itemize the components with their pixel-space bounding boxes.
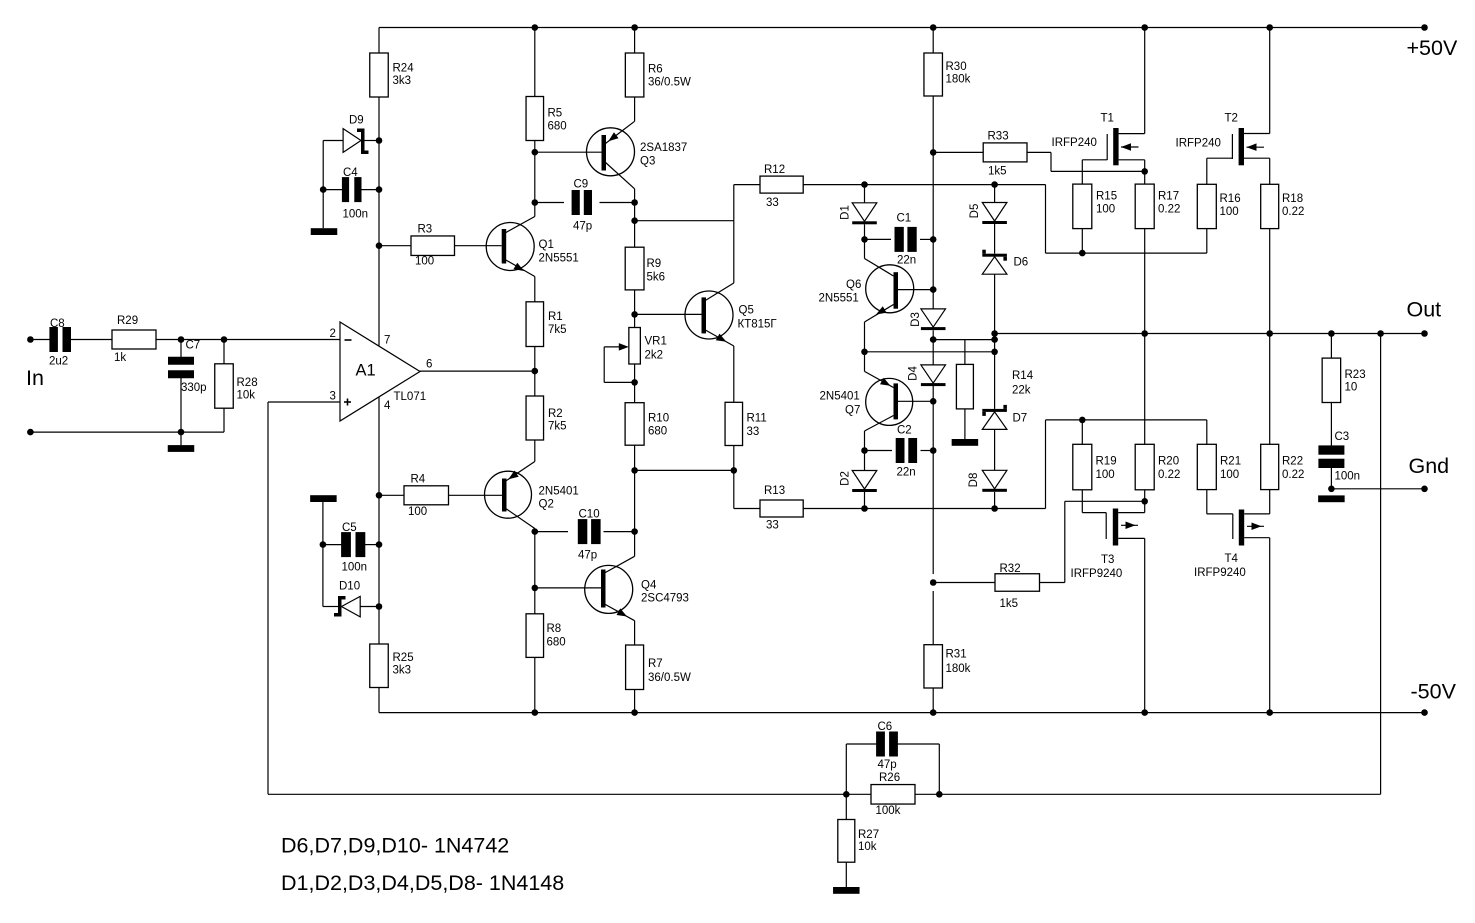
svg-text:0.22: 0.22 [1282, 469, 1304, 481]
node C6 left junction [843, 791, 850, 798]
svg-text:22k: 22k [1012, 385, 1031, 397]
transistor Q6 2N5551 [866, 265, 914, 313]
capacitor C1 [865, 238, 892, 240]
svg-text:47p: 47p [578, 550, 597, 562]
svg-text:D3: D3 [910, 312, 922, 327]
resistor R11 [725, 402, 743, 445]
svg-text:R32: R32 [1000, 563, 1021, 575]
wire down to C10 node [634, 470, 636, 556]
svg-text:100: 100 [1096, 204, 1115, 216]
svg-text:VR1: VR1 [645, 336, 667, 348]
svg-text:C5: C5 [342, 522, 357, 534]
wire R12 to D1/D5 node [803, 184, 994, 186]
node C1 left junction [861, 236, 868, 243]
wire feedback bottom run [268, 793, 871, 795]
wire T2 gate to R16 [1207, 157, 1233, 159]
svg-text:R7: R7 [648, 658, 663, 670]
resistor R5 [526, 97, 544, 141]
resistor R17 [1135, 184, 1154, 229]
wire zener column to D7 [994, 340, 996, 409]
wire Gnd rail [1331, 488, 1424, 490]
wire Q2 collector to Q4 base node [534, 532, 536, 614]
diode D3 [921, 309, 946, 327]
node C10 left junction [532, 528, 539, 535]
svg-text:R12: R12 [764, 164, 785, 176]
resistor R28 [223, 340, 225, 364]
transistor Q1 2N5551 [486, 223, 534, 271]
wire D1 to C1 node [864, 224, 866, 239]
svg-text:680: 680 [648, 426, 667, 438]
svg-text:Q1: Q1 [539, 239, 554, 251]
wire D8 node up link [1045, 420, 1047, 509]
wire Q3 base lead [535, 151, 602, 153]
svg-text:R9: R9 [647, 258, 662, 270]
svg-text:R10: R10 [648, 413, 669, 425]
svg-text:C10: C10 [579, 509, 600, 521]
svg-text:100: 100 [1096, 469, 1115, 481]
svg-text:D4: D4 [908, 366, 920, 381]
node input terminal lower [27, 429, 34, 436]
node Q4 base junction [532, 585, 539, 592]
wire Q6 base lead [898, 289, 933, 291]
svg-text:IRFP9240: IRFP9240 [1194, 567, 1246, 579]
diode D8 [982, 470, 1007, 489]
node R12 branch junction [631, 217, 638, 224]
transistor Q7 2N5401 [866, 378, 913, 425]
wire Q4 base lead [535, 587, 601, 589]
capacitor C4 [342, 177, 349, 202]
svg-text:IRFP9240: IRFP9240 [1071, 568, 1123, 580]
wire R29 to op-amp pin2 [156, 339, 340, 341]
wire R6 to Q3 emitter [634, 97, 636, 121]
mosfet T1 IRFP240 [1113, 128, 1118, 165]
node VR1 wiper junction [631, 379, 638, 386]
node R10-R11 link left [631, 467, 638, 474]
node R3 junction [376, 242, 383, 249]
wire emitters to zener column [865, 351, 995, 353]
node C7 top junction [178, 336, 185, 343]
node input terminal upper [27, 336, 34, 343]
svg-text:R19: R19 [1096, 456, 1117, 468]
resistor R10 [625, 403, 644, 446]
wire D7 to D8 [994, 429, 996, 470]
capacitor C8 [49, 327, 58, 352]
wire C1 node to Q6 base [932, 239, 934, 309]
wire R4 to Q2 base [449, 494, 503, 496]
svg-text:Q7: Q7 [845, 405, 860, 417]
svg-text:180k: 180k [946, 663, 971, 675]
node R19 top junction [1079, 417, 1086, 424]
resistor R20 [1144, 334, 1146, 445]
node C4 left junction [320, 186, 327, 193]
resistor R6 [625, 53, 644, 97]
wire C9 node to R9 [634, 203, 636, 248]
svg-text:C9: C9 [574, 179, 589, 191]
wire R32 to T3 source node [1040, 582, 1065, 584]
svg-text:180k: 180k [946, 74, 971, 86]
wire R10 to bottom node [634, 445, 636, 470]
node C1 right junction [930, 236, 937, 243]
svg-text:Q2: Q2 [539, 499, 554, 511]
svg-text:100k: 100k [876, 805, 901, 817]
node T1 source junction [1141, 168, 1148, 175]
wire R19/R21 tops rail [1046, 419, 1207, 421]
resistor R27 [845, 794, 847, 819]
wire R30 to C1 node [932, 96, 934, 238]
svg-text:D2: D2 [840, 471, 852, 486]
svg-text:Q4: Q4 [641, 580, 657, 592]
wire input lower [30, 431, 224, 433]
svg-text:R24: R24 [393, 63, 415, 75]
svg-text:Q3: Q3 [640, 156, 655, 168]
svg-text:R16: R16 [1220, 193, 1241, 205]
wire branch to R12 [635, 220, 734, 222]
svg-text:C4: C4 [343, 167, 358, 179]
svg-text:47p: 47p [878, 759, 897, 771]
svg-text:D5: D5 [969, 204, 981, 219]
svg-text:2SA1837: 2SA1837 [640, 142, 687, 154]
svg-text:7k5: 7k5 [548, 421, 567, 433]
node T3 source junction [1141, 498, 1148, 505]
resistor R1 [526, 302, 544, 347]
wire C3 to Gnd [1330, 467, 1332, 489]
svg-text:Q5: Q5 [739, 305, 754, 317]
svg-text:100n: 100n [343, 209, 369, 221]
svg-text:Q6: Q6 [846, 279, 861, 291]
node D5 top junction [991, 181, 998, 188]
svg-text:R17: R17 [1158, 191, 1179, 203]
svg-text:D7: D7 [1013, 413, 1028, 425]
wire Out rail [995, 333, 1425, 335]
resistor R33 [933, 151, 983, 153]
node bias right junction [991, 336, 998, 343]
svg-text:D9: D9 [349, 115, 364, 127]
wire feedback vertical to + input [267, 402, 269, 794]
node pin6-R1-R2 junction [532, 368, 539, 375]
wire R16 bottom to bias rail [1206, 229, 1208, 254]
resistor R21 [1206, 420, 1208, 444]
svg-text:R28: R28 [237, 377, 258, 389]
node D1 top junction [861, 181, 868, 188]
node Q3 base junction [532, 149, 539, 156]
resistor R26 [871, 785, 915, 805]
node R10-R11 link right [731, 467, 738, 474]
svg-text:4: 4 [384, 400, 391, 412]
wire op-amp pin6 output [420, 370, 535, 372]
node D9 junction [376, 137, 383, 144]
svg-text:R22: R22 [1282, 456, 1303, 468]
svg-text:+50V: +50V [1407, 36, 1458, 60]
ground above C5 [310, 495, 337, 502]
diode D2 [864, 451, 866, 471]
svg-text:100n: 100n [1335, 471, 1361, 483]
ground under R27 [833, 887, 860, 894]
ground under C3 [1318, 495, 1345, 502]
svg-text:R5: R5 [548, 108, 563, 120]
wire +50V to R24 [378, 28, 380, 54]
wire R11 bottom to R13 [733, 446, 735, 509]
wire R7 to -50V rail [634, 690, 636, 713]
wire R3 to Q1 base [455, 245, 502, 247]
capacitor C10 [535, 531, 568, 533]
svg-text:33: 33 [766, 520, 779, 532]
svg-text:T4: T4 [1225, 553, 1239, 565]
wire R17 to Out rail [1144, 229, 1146, 334]
svg-text:T3: T3 [1101, 554, 1114, 566]
wire +50V to R6 [634, 28, 636, 54]
node C5 junction [376, 541, 383, 548]
svg-text:A1: A1 [356, 362, 376, 380]
wire C4 left to ground [322, 190, 324, 229]
resistor R2 [526, 396, 544, 440]
capacitor C9 [535, 202, 564, 204]
node R15 bottom junction [1079, 250, 1086, 257]
wire R2 to Q2 emitter [534, 440, 536, 462]
svg-text:R21: R21 [1220, 456, 1241, 468]
capacitor C2 [865, 450, 893, 452]
wire C5 left down to D10 [322, 545, 324, 607]
svg-text:2SC4793: 2SC4793 [641, 593, 689, 605]
resistor R14 [964, 340, 966, 365]
svg-text:3k3: 3k3 [393, 665, 412, 677]
svg-text:10k: 10k [858, 841, 877, 853]
svg-text:33: 33 [766, 197, 779, 209]
op-amp A1 TL071 triangle [340, 322, 420, 421]
node C2 right junction [930, 447, 937, 454]
wire R28 bottom [223, 408, 225, 432]
op-amp minus input marker [345, 339, 352, 341]
wire R22 to T4 source [1269, 490, 1271, 514]
resistor R30 [924, 53, 943, 96]
capacitor C6 [845, 744, 847, 794]
svg-text:R29: R29 [117, 315, 138, 327]
wire R5 to C9 node [534, 141, 536, 203]
svg-text:C6: C6 [878, 721, 893, 733]
diode D5 [994, 185, 996, 203]
resistor R32 [933, 582, 995, 584]
svg-text:D6,D7,D9,D10- 1N4742: D6,D7,D9,D10- 1N4742 [281, 834, 509, 858]
svg-text:2N5401: 2N5401 [820, 391, 860, 403]
wire +50V to R5 [534, 28, 536, 97]
resistor R19 [1081, 420, 1083, 444]
svg-text:D1: D1 [840, 205, 852, 220]
node C4 junction [376, 186, 383, 193]
capacitor C3 [1330, 403, 1332, 448]
svg-text:2N5551: 2N5551 [819, 293, 859, 305]
svg-text:10: 10 [1345, 382, 1358, 394]
capacitor C5 [323, 544, 342, 546]
svg-text:10k: 10k [237, 390, 256, 402]
svg-text:0.22: 0.22 [1282, 206, 1304, 218]
resistor R13 [734, 508, 760, 510]
resistor R29 [112, 330, 156, 349]
svg-text:22n: 22n [897, 467, 916, 479]
wire D6 to Out rail [994, 274, 996, 333]
wire op-amp pin3 to feedback [268, 401, 340, 403]
svg-text:IRFP240: IRFP240 [1052, 137, 1097, 149]
node R32 junction [930, 579, 937, 586]
zener diode D7 [982, 409, 1007, 412]
svg-text:47p: 47p [573, 221, 592, 233]
diode D4 [921, 365, 946, 383]
wire R8 to -50V rail [534, 657, 536, 712]
svg-text:D8: D8 [968, 473, 980, 488]
resistor R22 [1269, 334, 1271, 445]
svg-text:TL071: TL071 [394, 391, 427, 403]
svg-text:3k3: 3k3 [393, 75, 412, 87]
svg-text:6: 6 [426, 359, 432, 371]
node Q5 base junction [631, 311, 638, 318]
svg-text:IRFP240: IRFP240 [1176, 138, 1221, 150]
svg-text:330p: 330p [181, 382, 207, 394]
transistor Q2 2N5401 [485, 471, 532, 518]
svg-text:2: 2 [330, 328, 336, 340]
svg-text:R30: R30 [946, 61, 967, 73]
svg-text:100: 100 [415, 256, 434, 268]
svg-text:R11: R11 [747, 413, 767, 425]
svg-text:D1,D2,D3,D4,D5,D8- 1N4148: D1,D2,D3,D4,D5,D8- 1N4148 [281, 871, 564, 895]
svg-text:R2: R2 [548, 408, 563, 420]
svg-text:2N5401: 2N5401 [539, 486, 579, 498]
node C9 right junction [631, 199, 638, 206]
resistor R16 [1206, 158, 1208, 184]
svg-text:22n: 22n [897, 255, 916, 267]
node Gnd dots [1328, 486, 1335, 493]
wire op-amp pin4 down [378, 397, 380, 644]
svg-text:2u2: 2u2 [49, 356, 68, 368]
wire VR1 to R10 [634, 364, 636, 403]
resistor R7 [626, 645, 644, 690]
resistor R15 [1081, 160, 1083, 184]
node +50V junction dots [532, 24, 539, 31]
wire R24 to op-amp pin7 [378, 97, 380, 346]
node zener column emitter junction [991, 349, 998, 356]
mosfet T3 IRFP9240 [1113, 509, 1118, 546]
wire R30 column down [932, 28, 934, 54]
resistor R8 [526, 614, 544, 658]
node C2 left junction [861, 447, 868, 454]
svg-text:R25: R25 [393, 652, 414, 664]
svg-text:100: 100 [408, 506, 427, 518]
svg-text:100: 100 [1220, 469, 1239, 481]
svg-text:КТ815Г: КТ815Г [738, 319, 778, 331]
svg-text:7: 7 [384, 335, 390, 347]
wire D4 to Q7 base node [932, 386, 934, 451]
node C5 left junction [320, 541, 327, 548]
svg-text:2k2: 2k2 [645, 350, 664, 362]
wire Q7 base lead [898, 400, 933, 402]
wire D9 anode down to C4 [322, 141, 324, 190]
svg-text:T2: T2 [1225, 113, 1238, 125]
trimmer VR1 wiper arm [604, 346, 622, 348]
svg-text:36/0.5W: 36/0.5W [648, 77, 691, 89]
resistor R24 [370, 53, 389, 97]
mosfet T2 IRFP240 [1239, 128, 1244, 165]
node R4 junction [376, 492, 383, 499]
svg-text:C3: C3 [1335, 431, 1350, 443]
wire R27 to ground [845, 862, 847, 887]
wire link to R11 bottom [635, 469, 734, 471]
wire R14 to ground [964, 409, 966, 439]
svg-text:C1: C1 [897, 213, 912, 225]
svg-text:1k5: 1k5 [1000, 598, 1019, 610]
svg-text:36/0.5W: 36/0.5W [648, 672, 691, 684]
node emitters junction [861, 349, 868, 356]
svg-text:680: 680 [547, 637, 566, 649]
svg-text:100n: 100n [342, 562, 368, 574]
svg-text:R26: R26 [879, 772, 900, 784]
svg-text:R33: R33 [988, 131, 1009, 143]
node D8 bottom junction [991, 505, 998, 512]
svg-text:D6: D6 [1014, 257, 1029, 269]
transistor Q5 KT815 [685, 291, 733, 339]
node R33 junction [930, 149, 937, 156]
wire R15 bottom [1081, 229, 1083, 254]
svg-text:R1: R1 [548, 311, 563, 323]
wire R1 to pin6 node [534, 347, 536, 397]
node C9 left junction [532, 199, 539, 206]
resistor R4 [379, 494, 404, 496]
node Q6 base junction [930, 286, 937, 293]
resistor R31 [932, 591, 934, 645]
svg-text:D10: D10 [339, 581, 360, 593]
node -50V junction dots [532, 709, 539, 716]
wire Out to feedback vertical [1380, 334, 1382, 795]
svg-text:In: In [26, 366, 44, 390]
svg-text:2N5551: 2N5551 [539, 253, 579, 265]
svg-text:T1: T1 [1101, 113, 1114, 125]
node C6 right junction [936, 791, 943, 798]
svg-text:1k5: 1k5 [988, 166, 1007, 178]
wire R13 to D2/D8 node [803, 508, 1045, 510]
mosfet T4 IRFP9240 [1239, 510, 1244, 546]
wire C8 to R29 [70, 339, 112, 341]
svg-text:-50V: -50V [1411, 680, 1457, 704]
svg-text:R18: R18 [1282, 193, 1303, 205]
svg-text:R14: R14 [1012, 370, 1034, 382]
node D2 bottom junction [861, 505, 868, 512]
wire R19 to T3 gate [1081, 490, 1083, 513]
wire R31 to -50V rail [932, 688, 934, 713]
wire -50V rail [379, 712, 1425, 714]
wire bias node to R14 and D6 [933, 339, 994, 341]
wire R33 to T1 source node [1027, 151, 1051, 153]
zener diode D6 [982, 254, 1007, 257]
node D10 junction [376, 603, 383, 610]
ground under C7 [168, 445, 195, 452]
node D3-R14-D6 junction [930, 336, 937, 343]
node C10 right junction [631, 528, 638, 535]
svg-text:R13: R13 [764, 485, 785, 497]
resistor R9 [625, 247, 644, 290]
trimmer VR1 [629, 328, 641, 365]
svg-text:33: 33 [747, 426, 760, 438]
capacitor C7 [180, 340, 182, 360]
resistor R12 [734, 184, 760, 186]
svg-text:R3: R3 [418, 224, 433, 236]
svg-text:R27: R27 [858, 829, 879, 841]
wire +50V rail [379, 27, 1425, 29]
resistor R23 [1330, 334, 1332, 359]
transistor Q4 2SC4793 [585, 565, 633, 613]
svg-text:R6: R6 [648, 64, 663, 76]
svg-text:R15: R15 [1096, 191, 1117, 203]
op-amp plus input marker [344, 401, 351, 403]
transistor Q3 2SA1837 [587, 128, 635, 176]
svg-text:0.22: 0.22 [1158, 469, 1180, 481]
wire D5 node to R15/R16 bottoms [995, 184, 1046, 186]
svg-text:R8: R8 [547, 623, 562, 635]
